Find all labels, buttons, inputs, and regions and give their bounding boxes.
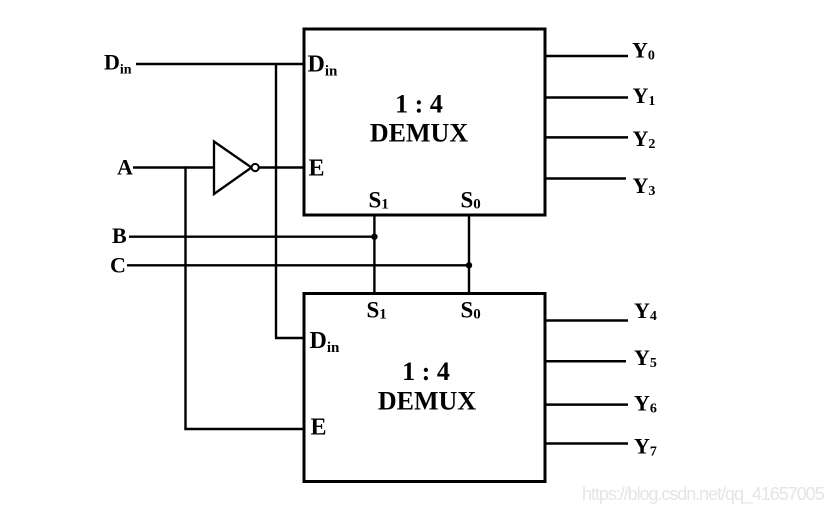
- svg-text:E: E: [309, 155, 325, 181]
- wire Y4: [545, 319, 628, 322]
- wire S1 vertical (B net): [373, 215, 375, 294]
- svg-text:C: C: [110, 253, 126, 278]
- svg-text:1 : 4: 1 : 4: [402, 357, 450, 386]
- wire inverter output to U1 E: [259, 166, 304, 168]
- wire Y6: [545, 403, 628, 406]
- wire Din horizontal: [136, 63, 304, 65]
- inverter G1 triangle: [214, 142, 252, 195]
- junction B-S1: [371, 234, 377, 240]
- svg-text:DEMUX: DEMUX: [370, 118, 468, 147]
- svg-text:1 : 4: 1 : 4: [395, 90, 443, 119]
- demux U2 (bottom 1:4 DEMUX box): [304, 294, 545, 482]
- svg-text:A: A: [117, 155, 133, 180]
- wire Y2: [545, 136, 628, 139]
- wire A vertical branch: [184, 166, 186, 429]
- wire Din to U2: [275, 337, 304, 339]
- wire Y7: [545, 442, 628, 445]
- svg-text:DEMUX: DEMUX: [378, 387, 476, 416]
- demux U1 (top 1:4 DEMUX box): [304, 29, 545, 215]
- svg-text:E: E: [311, 415, 327, 441]
- wire Y3: [545, 177, 626, 180]
- wire B horizontal: [129, 235, 374, 237]
- junction C-S0: [466, 262, 472, 268]
- wire C horizontal: [127, 264, 469, 266]
- wire Din vertical drop: [275, 63, 277, 338]
- wire S0 vertical (C net): [468, 215, 470, 294]
- wire A branch to U2 E: [184, 428, 304, 430]
- svg-text:https://blog.csdn.net/qq_41657: https://blog.csdn.net/qq_41657005: [582, 484, 825, 505]
- svg-text:B: B: [112, 223, 127, 248]
- wire Y1: [545, 96, 628, 99]
- wire A to inverter: [133, 166, 215, 168]
- wire Y0: [545, 55, 628, 58]
- inverter G1 bubble: [252, 164, 259, 171]
- wire Y5: [545, 360, 626, 363]
